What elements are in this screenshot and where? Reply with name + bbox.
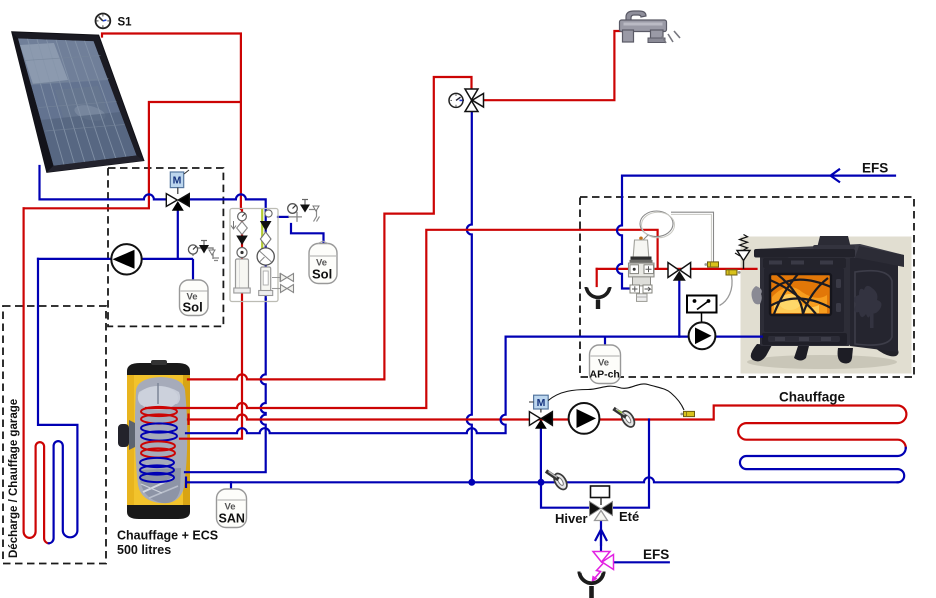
discharge valve body	[639, 237, 643, 241]
storage tank Chauffage + ECS 500 litres	[118, 360, 190, 519]
node: junction cold line / Hiver branch	[538, 479, 545, 486]
svg-text:Eté: Eté	[619, 509, 639, 524]
station left column: gauge, check valve, thermometer, insulation	[238, 212, 247, 221]
svg-text:Décharge / Chauffage garage: Décharge / Chauffage garage	[8, 399, 20, 558]
wire: blue Ve SAN stub	[230, 482, 232, 489]
wire: blue solar station to tank lower coil (with hop-overs)	[185, 299, 266, 472]
safety group 1 (with gauge, on solar pump line)	[188, 241, 219, 261]
EFS fill valve (magenta)	[592, 552, 614, 583]
arrow: EFS flow direction top right	[831, 169, 841, 183]
tundish / drain 2 (bottom)	[579, 572, 604, 598]
green lever line	[261, 209, 263, 251]
ball valve 1 (heating supply)	[614, 409, 638, 430]
EFS thermal-discharge / cooling valve assembly (stove)	[629, 211, 714, 301]
pump P1 solar/garage circulator	[111, 244, 141, 274]
station right column: pump, flow meter	[265, 210, 272, 217]
svg-text:S1: S1	[118, 17, 133, 29]
wire: blue branch heating supply to Ete port	[613, 420, 649, 508]
3-way zone valve X (stove loop)	[668, 263, 691, 281]
pump P2 heating circulator	[569, 403, 600, 434]
wire: blue EFS fill line bottom	[614, 561, 669, 563]
node: junction cold line / mixing valve feed	[468, 479, 475, 486]
svg-text:EFS: EFS	[643, 547, 669, 562]
wire: blue cold feed from mixing valve to cold line	[467, 111, 472, 482]
wire: blue Ve AP-ch stub	[604, 337, 606, 345]
yellow sensor 2 (thermostat bulb on pipe)	[726, 270, 741, 275]
svg-text:Sol: Sol	[312, 267, 332, 282]
ball valve 2 (cold line)	[546, 471, 570, 492]
wire: blue branch cold line to Hiver port	[541, 482, 590, 507]
wire: blue M-valve2 bottom drop to cold line	[540, 426, 542, 482]
wire: red stove supply from tank coil top	[146, 230, 658, 408]
svg-text:SAN: SAN	[219, 512, 245, 526]
safety group 2 (top of solar station)	[288, 200, 320, 222]
wire: red DHW hot from tank top to mixing valve	[188, 77, 472, 379]
dashed box: solar pump group enclosure	[108, 168, 223, 326]
tank coil: solar/DHW coils	[140, 407, 177, 482]
yellow sensor 1 (discharge valve bulb on pipe)	[704, 262, 718, 267]
svg-text:Hiver: Hiver	[555, 511, 588, 526]
wire: red mixed hot water to tap	[483, 31, 623, 100]
wire: red branch to garage discharge loop	[24, 102, 241, 208]
svg-text:Ve: Ve	[598, 358, 609, 369]
wire: red garage serpentine supply	[24, 208, 49, 543]
wire: blue cold/return main line along bottom	[188, 477, 898, 482]
wood stove	[747, 236, 904, 369]
tap / draw-off faucet	[620, 11, 681, 43]
wire: blue X-valve bottom drop to stove return	[678, 276, 680, 337]
wire: blue Ve Sol 2 stub from safety group 2	[291, 224, 324, 244]
wire: red solar station internal left pipe	[241, 209, 243, 290]
solar collector panel	[12, 32, 144, 173]
thermostat switch box (stove pump control)	[687, 296, 717, 324]
tank port tick: cold bottom	[185, 477, 187, 489]
yellow sensor 3 (on heating supply)	[680, 411, 694, 416]
valve M2 motorised 3-way mixing valve (heating)	[529, 395, 552, 429]
svg-text:Sol: Sol	[183, 300, 203, 315]
capillary coil of discharge valve	[640, 211, 673, 237]
wire: blue Ve Sol 1 stub	[192, 260, 194, 280]
expansion vessel Ve SAN	[217, 489, 247, 528]
capillary sensor2 to thermostat	[720, 276, 733, 306]
wire: red stove loop main line through discharge valve	[597, 268, 757, 270]
valve M1 motorised 3-way mixing valve (solar)	[166, 170, 189, 211]
dashed box: wood stove enclosure	[580, 197, 914, 377]
expansion vessel Ve AP-ch	[590, 345, 621, 384]
wire: blue stove return tank to pump	[186, 337, 689, 434]
capillary M2 to sensor 3	[548, 384, 684, 410]
expansion vessel Ve Sol 2	[309, 241, 337, 284]
Hiver/Ete seasonal 3-way valve with actuator	[590, 486, 613, 521]
svg-text:AP-ch: AP-ch	[590, 369, 620, 381]
wire: red solar station to tank coil	[180, 290, 242, 439]
svg-text:500 litres: 500 litres	[117, 543, 171, 557]
svg-text:M: M	[537, 397, 546, 409]
wire: blue garage serpentine return	[38, 259, 77, 543]
arrow: upward flow into Hiver/Ete valve	[595, 530, 607, 547]
thermostatic mixing valve (DHW) with gauge	[449, 89, 484, 112]
dashed box: Decharge / Chauffage garage enclosure	[3, 306, 106, 564]
wire: blue stove pump outlet to stove	[715, 336, 762, 338]
wire: blue solar station internal right pipe	[265, 209, 267, 299]
tundish / drain 1 (stove box)	[586, 287, 610, 309]
svg-text:EFS: EFS	[862, 161, 888, 176]
wire: blue Chauffage serpentine return	[740, 448, 906, 482]
wire: blue M-valve bottom port drop	[177, 206, 179, 259]
svg-text:Chauffage: Chauffage	[779, 390, 845, 405]
wire: red heating supply tank to Chauffage serpentine	[188, 406, 906, 448]
safety valve at stove inlet	[735, 235, 750, 269]
station fill/drain bow-tie valves	[272, 273, 280, 282]
wire: red collector supply, panel top to solar station	[102, 34, 241, 210]
solar pump station body	[230, 209, 294, 302]
svg-text:M: M	[173, 175, 182, 187]
wire: blue EFS cold feed top right into stove box	[617, 176, 895, 289]
wire: blue panel return, panel to M-valve to solar station	[40, 166, 266, 209]
expansion vessel Ve Sol 1	[180, 280, 209, 316]
wire: blue Hiver/Ete valve bottom to EFS fill valve	[600, 521, 602, 552]
wood stove photo background	[741, 237, 912, 374]
wire: red discharge to tundish	[596, 269, 598, 286]
svg-text:Chauffage + ECS: Chauffage + ECS	[117, 529, 218, 543]
sensor S1 clock on collector	[96, 14, 111, 29]
tank port tick: heating supply	[187, 414, 189, 426]
wire: blue garage/pump line to M-valve and safety group	[38, 258, 192, 260]
pump P3 stove circulator	[689, 322, 716, 349]
wire: blue stub station to safety group 2	[278, 216, 288, 218]
